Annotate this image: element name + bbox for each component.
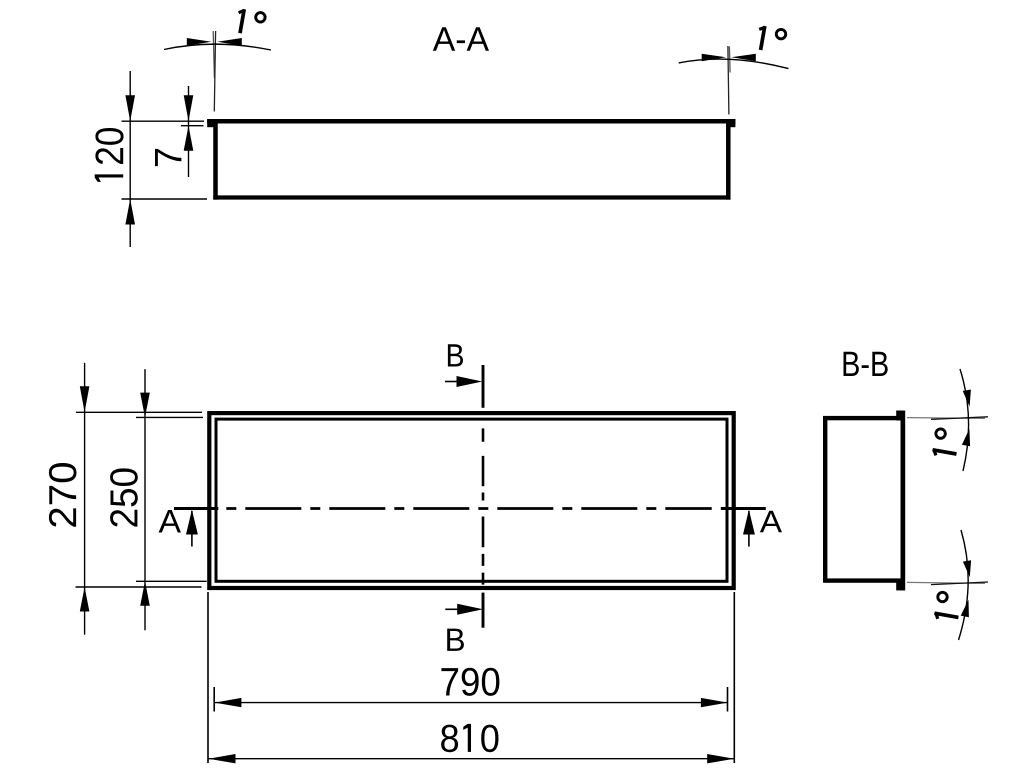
extension line 250 top [136, 416, 203, 418]
arrowhead 270 bottom [80, 587, 90, 612]
side view bottom flange tab [896, 580, 904, 590]
arrowhead top-right callout lower [962, 429, 970, 447]
angle arc top-right callout [960, 369, 969, 471]
arrowhead 250 top [140, 393, 150, 418]
arrowhead bottom-right callout upper [963, 560, 971, 577]
arrow A left [191, 511, 193, 547]
arrow B bottom [445, 608, 458, 610]
arrowhead 250 bottom [140, 581, 150, 606]
right wall of section A-A [726, 119, 731, 200]
section line B-B dashed middle [482, 428, 485, 584]
extension line 810 right [733, 592, 735, 763]
arrowhead 120 bottom [125, 199, 135, 225]
1-degree tilted line top [931, 417, 988, 420]
1-degree leg line left callout (tilted) [213, 31, 214, 78]
dimension text 250 [110, 468, 138, 526]
arrowhead top-right callout upper [963, 390, 971, 407]
extension line for 7 dim [181, 125, 204, 127]
arrowhead bottom-right callout lower [961, 600, 969, 617]
left wall of section A-A [213, 119, 218, 200]
arrowhead 270 top [80, 386, 90, 412]
extension line bottom (120 dim) [122, 198, 208, 200]
extension line 270 bottom [76, 586, 202, 588]
bottom line of section A-A [213, 195, 730, 199]
arrowhead 120 top [125, 95, 135, 121]
arrowhead right-callout west [702, 54, 726, 62]
arrow B top [445, 381, 458, 383]
side view top flange tab [896, 411, 904, 421]
angle arc right callout [679, 59, 789, 69]
arrowhead 7 top [184, 95, 194, 121]
arrowhead 810 left [209, 754, 236, 763]
angle arc bottom-right callout [959, 530, 969, 640]
side view B-B rectangle [825, 418, 903, 580]
dimension text 7 [155, 149, 181, 166]
section label B-B [843, 352, 887, 376]
extension line 270 top [76, 411, 202, 413]
extension line 250 bottom [136, 580, 207, 582]
extension stub 790 right [727, 687, 729, 712]
angle text 1 deg bottom-right [935, 592, 959, 619]
dimension text 790 [441, 668, 499, 696]
arrowhead 810 right [707, 754, 734, 763]
centerline dash-dot [226, 507, 711, 510]
label A right [760, 511, 782, 533]
dimension line 120 upper shaft [129, 71, 131, 247]
dimension line 810 [209, 758, 735, 760]
label B top [448, 344, 463, 366]
front view inner rectangle [216, 419, 727, 581]
extension line top (120/7 dims) [122, 120, 205, 122]
dimension line 250 upper shaft [144, 369, 146, 630]
arrowhead 790 left [215, 698, 242, 707]
section line B-B top thick segment [482, 365, 485, 408]
1-degree reference line top (gray) [907, 417, 985, 420]
extension line 810 left [207, 592, 209, 763]
section line A-A right thick segment [721, 507, 766, 510]
section label A-A [433, 27, 489, 50]
dimension text 810 [441, 724, 498, 752]
side view right flange edge [901, 411, 906, 591]
front view outer rectangle [209, 413, 733, 588]
1-degree leg line left callout (long) [214, 31, 215, 112]
extension stub 790 left [213, 687, 215, 712]
1-degree tilted line bottom [931, 582, 988, 585]
angle text 1 deg top-right [933, 429, 957, 456]
angle arc left callout [164, 44, 271, 50]
section line A-A left thick segment [174, 507, 218, 510]
right flange tab [729, 119, 736, 127]
dimension text 120 [95, 128, 124, 182]
label A left [159, 510, 181, 533]
angle text 1 deg right [759, 26, 786, 50]
dimension line 790 [215, 702, 728, 704]
arrowhead 790 right [701, 698, 728, 707]
1-degree leg line right callout (long) [728, 46, 729, 115]
arrowhead right-callout east [731, 54, 756, 62]
dimension line 7 upper shaft [188, 86, 190, 177]
dimension line 270 upper shaft [84, 363, 86, 635]
arrow A right [748, 511, 750, 547]
arrowhead 7 bottom [184, 126, 194, 151]
arrowhead left-callout east [217, 38, 242, 46]
flange top line of section A-A [207, 119, 735, 124]
arrowhead left-callout west [187, 38, 212, 46]
dimension text 270 [49, 463, 77, 527]
section line B-B bottom thick segment [482, 593, 485, 628]
angle text 1 deg left [239, 9, 266, 33]
label B bottom [447, 629, 464, 651]
1-degree leg line right callout (tilted) [728, 47, 731, 73]
left flange tab [207, 119, 214, 127]
1-degree reference line bottom (gray) [907, 582, 985, 583]
